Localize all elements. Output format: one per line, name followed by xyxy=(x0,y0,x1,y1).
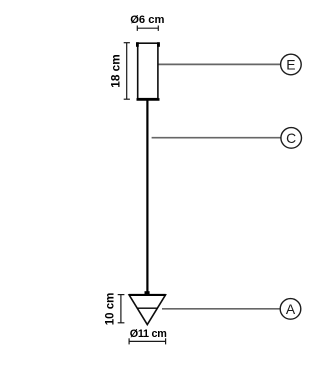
svg-text:A: A xyxy=(286,301,296,317)
svg-text:18 cm: 18 cm xyxy=(108,54,122,87)
svg-text:E: E xyxy=(286,57,295,73)
svg-text:Ø6 cm: Ø6 cm xyxy=(130,14,164,26)
svg-text:C: C xyxy=(286,130,296,146)
svg-text:Ø11 cm: Ø11 cm xyxy=(130,328,167,340)
svg-text:10 cm: 10 cm xyxy=(105,293,117,326)
